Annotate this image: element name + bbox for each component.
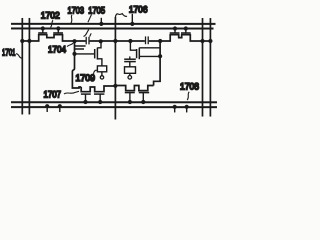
transistor Q3 gate bar: [170, 32, 180, 34]
wire C4 to box2: [129, 62, 131, 67]
transistor Q8 channel: [138, 48, 140, 60]
wire bus T1: [11, 23, 215, 25]
transistor Q8 source lead: [139, 55, 160, 57]
capacitor C2 in rail: [145, 36, 147, 44]
transistor Q10 stub: [142, 93, 144, 103]
svg-text:1703: 1703: [68, 5, 85, 15]
transistor Q2 gate bar: [53, 32, 63, 34]
capacitor C3 plate bottom: [75, 48, 84, 50]
wire box2 to terminal: [129, 73, 131, 75]
svg-text:1706: 1706: [129, 5, 148, 15]
wire bus T2: [11, 27, 213, 29]
node Q1 gate-T2: [41, 26, 45, 30]
node rail-RV2: [208, 39, 212, 43]
pointer 1701: [16, 54, 22, 58]
pointer 1708: [187, 92, 189, 100]
node source2: [158, 54, 162, 58]
wire bus B1: [11, 101, 217, 103]
node B2 tap 3: [173, 105, 177, 109]
capacitor C4 plate bottom: [124, 61, 136, 63]
transistor Q7 gate bar: [94, 93, 104, 95]
terminal circle 1: [100, 76, 103, 79]
wire right vertical 1: [201, 18, 203, 117]
node rail-feed1: [72, 39, 76, 43]
wire top rail right with transistor bumps Q3 Q4: [149, 35, 211, 41]
transistor Q4 gate bar: [181, 32, 191, 34]
wire left vertical 2: [28, 18, 30, 114]
wire bottom rail left cell with dips Q6 Q7: [81, 86, 115, 92]
node stub132-T1: [130, 22, 134, 26]
svg-text:1707: 1707: [43, 90, 61, 100]
node B2 tap 4: [185, 105, 189, 109]
tick above C1: [90, 33, 92, 36]
transistor Q5 channel: [96, 48, 98, 60]
pointer 1709: [94, 70, 98, 74]
pointer 1705: [88, 14, 92, 22]
svg-text:1709: 1709: [75, 73, 95, 83]
node bottomrail-CV: [113, 84, 117, 88]
node rail-drain2: [158, 39, 162, 43]
node Q7-B1: [98, 100, 102, 104]
node rail-feed2: [128, 39, 132, 43]
transistor Q9 stub: [129, 93, 131, 103]
node Q10-B1: [141, 100, 145, 104]
node Q9-B1: [128, 100, 132, 104]
wire gate line Q5: [75, 53, 95, 55]
transistor Q5 source lead: [97, 59, 102, 66]
capacitor C4 plate top: [124, 58, 136, 60]
pointer 1702: [51, 20, 53, 27]
terminal circle 2: [128, 76, 132, 80]
wire bus B2: [11, 106, 217, 108]
transistor Q9 gate bar: [125, 92, 135, 94]
wire left vertical 1: [21, 18, 23, 114]
wire top rail with transistor bumps Q1 Q2: [22, 35, 85, 41]
transistor Q1 gate bar: [38, 32, 47, 34]
transistor Q6 stub: [84, 94, 86, 102]
node rail-drain1: [99, 39, 103, 43]
svg-text:1705: 1705: [88, 5, 105, 15]
wire box1 to terminal: [101, 72, 103, 76]
wire right vertical 2: [209, 18, 211, 116]
box LC2: [124, 67, 135, 74]
node rail-LV1: [20, 39, 24, 43]
wire center vertical: [114, 17, 116, 120]
stub above T1 at 132: [131, 14, 133, 24]
transistor Q10 gate bar: [139, 92, 149, 94]
wire bottom rail right cell with dips Q9 Q10: [115, 86, 153, 91]
node feed1-gate: [72, 52, 76, 56]
transistor Q8 drain lead: [139, 47, 160, 49]
node stub101-T1: [99, 22, 103, 26]
wire feed1: [72, 41, 81, 88]
transistor Q1 gate stub: [42, 28, 44, 32]
transistor Q5 gate bar: [94, 49, 96, 58]
node B2 tap 1: [45, 104, 49, 108]
node Q2 gate-T2: [56, 26, 60, 30]
wire right cell drop and staircase: [154, 41, 161, 86]
capacitor C1 in rail: [85, 37, 87, 45]
transistor Q8 gate bar: [136, 49, 138, 58]
pointer 1707: [64, 91, 79, 94]
stub above T1 at 101: [100, 18, 102, 24]
svg-text:1702: 1702: [41, 10, 60, 20]
transistor Q2 gate stub: [57, 28, 59, 32]
transistor Q5 drain lead: [97, 41, 101, 48]
svg-text:1701: 1701: [2, 48, 16, 58]
wire feed2: [130, 41, 136, 50]
node rail-RV1: [200, 39, 204, 43]
node Q6-B1: [83, 100, 87, 104]
transistor Q7 stub: [99, 94, 101, 102]
capacitor C3 plate top: [75, 45, 86, 47]
wire CV top hook: [115, 14, 127, 18]
svg-text:1708: 1708: [180, 82, 199, 92]
wire top rail middle: [90, 40, 145, 42]
transistor Q3 gate stub: [174, 29, 176, 33]
node Q4 gate-T2: [184, 26, 188, 30]
node rail-LV2: [27, 39, 31, 43]
node Q3 gate-T2: [173, 26, 177, 30]
node B2 tap 2: [58, 104, 62, 108]
node rail-CV: [113, 39, 117, 43]
transistor Q6 gate bar: [81, 93, 91, 95]
transistor Q4 gate stub: [185, 29, 187, 33]
svg-text:1704: 1704: [48, 44, 66, 54]
capacitor C4 stub: [129, 56, 131, 59]
pointer 1703: [71, 15, 72, 23]
box LC1: [97, 66, 106, 72]
pointer 1704: [84, 30, 89, 37]
pointer 1704 tail: [67, 43, 73, 46]
